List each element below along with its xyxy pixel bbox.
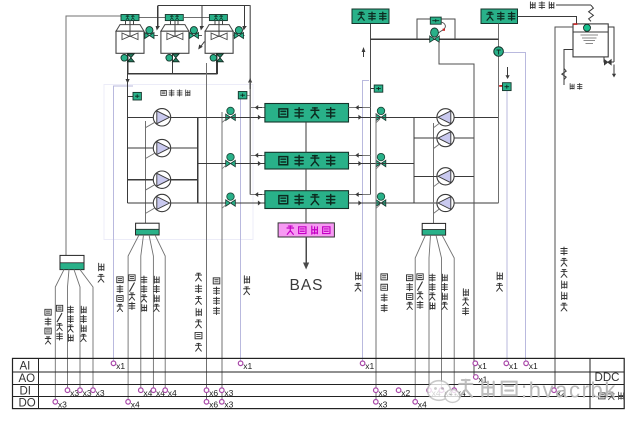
communication interface box 通讯接口 (278, 223, 334, 237)
wire temp sensor T1 to AI (114, 86, 134, 362)
wire chilled pump controls to junction box JB3 (432, 123, 434, 223)
label 起停控制 (406, 275, 412, 310)
pipe chiller3 row to return downpipe (349, 202, 499, 204)
pump P1-1 outlet stub (171, 116, 198, 118)
pipe chiller2 row stub (349, 163, 415, 165)
svg-text:x3: x3 (224, 388, 233, 398)
chilled pump right header (473, 117, 475, 203)
svg-text:x3: x3 (378, 388, 387, 398)
tower CT3 outlet drain valve (216, 53, 218, 73)
wire pump P1-2 control tap (145, 153, 155, 159)
chiller 2 condenser in pipe (198, 163, 265, 165)
DI points (65, 388, 70, 393)
cooling tower CT1 fan box (121, 15, 139, 21)
tower inlet butterfly valve BV3 (235, 27, 242, 34)
wire pump P2-2 control tap (433, 144, 440, 149)
wire JB1-3 (74, 270, 80, 391)
pump P1-3 (153, 171, 170, 188)
pump P1-2 (153, 139, 170, 156)
pump P2-3 stubs (414, 175, 437, 177)
cooling tower CT1 fan blades (129, 21, 131, 37)
label 手/自动 (417, 274, 423, 309)
label 故障报警 (81, 306, 87, 341)
tower inlet butterfly valve BV2 (190, 27, 197, 34)
float valve on tank (584, 24, 591, 31)
chiller communication bus (305, 122, 307, 152)
wire JB2-3 (149, 235, 153, 391)
svg-text:x6: x6 (209, 399, 218, 409)
flow arrow up beside supply riser (362, 47, 366, 52)
condenser pump inlet header (127, 117, 129, 203)
label 故障报警 (442, 274, 448, 309)
label 手/自动 (56, 305, 62, 340)
label 温度 (355, 272, 361, 291)
DO points (53, 400, 58, 405)
chiller 1 condenser out pipe (250, 107, 265, 109)
junction box JB3 (chilled pumps) (422, 223, 445, 235)
svg-text:x3: x3 (96, 388, 105, 398)
chilled water valve FV1 (377, 107, 384, 114)
label 起停控制 (117, 277, 123, 312)
label 启停控制 (45, 309, 51, 344)
svg-text:x6: x6 (209, 388, 218, 398)
chiller 1 evaporator out pipe (349, 107, 371, 109)
condenser inlet valve CV3 (227, 193, 234, 200)
wire pump controls to junction box JB2 (144, 121, 146, 223)
pump P1-3 inlet stub (128, 179, 154, 181)
watermark text (459, 380, 516, 397)
wire JB3-2 (429, 235, 431, 390)
wire pump P1-3 control tap (145, 185, 155, 191)
tower CT1 outlet drain valve (127, 53, 129, 73)
wire JB3-1 (415, 235, 425, 402)
label 运行状态 (141, 276, 147, 311)
wire level switch to DI 高低液位 (555, 27, 573, 391)
svg-text:x4: x4 (168, 388, 177, 398)
svg-text:DO: DO (19, 398, 36, 410)
label 冷却水阀 (213, 278, 220, 315)
wire temp sensor T4 to AI (506, 91, 508, 363)
pump P2-4 (437, 194, 454, 211)
cooling tower CT3 body (214, 21, 216, 25)
differential pressure sensing lines (417, 19, 430, 39)
pipe pump row1 to chiller1 (198, 116, 265, 118)
wire JB2-4 (155, 235, 165, 391)
make-up pipe to system 补水 (564, 50, 573, 86)
chiller 3 evaporator in pipe (355, 202, 360, 204)
label 运行状态 (68, 306, 74, 341)
wire temp sensor T2 to AI (240, 99, 242, 363)
svg-text:x1: x1 (243, 361, 252, 371)
wire JB1-2 (68, 270, 70, 391)
pump P1-1 inlet stub (128, 116, 154, 118)
wire JB3-3 (436, 235, 442, 390)
chiller unit 3 冷水机组 (265, 191, 349, 209)
wire JB1-1 (55, 270, 64, 402)
svg-text:x1: x1 (116, 361, 125, 371)
condenser pump discharge manifold (197, 117, 199, 203)
svg-text:BAS: BAS (289, 277, 323, 294)
svg-text:x1: x1 (529, 361, 538, 371)
tower collecting pipe (128, 73, 218, 75)
pipe chiller1 row to return downpipe (349, 116, 499, 118)
pump P2-2 (437, 130, 454, 147)
wire JB2-2 (141, 235, 144, 391)
chilled supply header riser to distributor (369, 24, 371, 195)
arrow to BAS (305, 237, 307, 263)
wire bypass valve to AO/AI (439, 41, 474, 377)
wire pump P2-1 control tap (433, 123, 440, 128)
watermark wechat logo (428, 381, 461, 403)
wire temp sensor T3 to AI (363, 81, 369, 363)
svg-text:x4: x4 (418, 399, 427, 409)
cooling tower CT2 body (170, 21, 172, 25)
wire pump P2-3 control tap (433, 182, 440, 187)
wire flow/temp sensor T5 to AI (503, 52, 525, 362)
pump P1-2 inlet stub (128, 147, 154, 149)
pump P1-4 inlet stub (128, 202, 154, 204)
pump P1-4 (153, 194, 170, 211)
chiller 1 evaporator in pipe (355, 116, 360, 118)
chiller 2 evaporator in pipe (355, 163, 360, 165)
flow arrow down beside return pipe (507, 67, 509, 76)
temp sensor T4 on return pipe (499, 85, 502, 87)
wire JB1-4 (80, 270, 93, 391)
condenser inlet valve CV1 (227, 107, 234, 114)
label 高低液位报警 (561, 247, 567, 311)
cooling tower CT3 fan box (209, 15, 227, 21)
pump P2-2 stubs (414, 137, 437, 139)
temp sensor T3 on chilled supply header (370, 88, 374, 90)
bypass valve control hook (436, 22, 446, 37)
label 蝶阀状态及控制 (195, 273, 202, 351)
svg-text:x1: x1 (509, 361, 518, 371)
tower CT2 outlet drain valve (172, 53, 174, 73)
DP controller box (430, 17, 441, 24)
group outline (condenser plant, faint) (104, 85, 253, 240)
bypass pipe between headers (370, 38, 498, 40)
wire JB2-1 (128, 235, 139, 402)
wire pump P1-1 control tap (145, 122, 155, 128)
junction box JB1 (tower fans) (60, 255, 84, 269)
label 故障报警 (154, 276, 160, 311)
svg-text:x1: x1 (478, 361, 487, 371)
chiller 1 condenser in pipe (254, 116, 258, 118)
make-up water tank (573, 24, 608, 57)
distributor 分水器 (352, 9, 389, 24)
wire JB3-4 (442, 235, 454, 390)
flow sensor on return pipe (494, 47, 504, 57)
wire pump P1-4 control tap (145, 208, 155, 214)
bypass valve 旁通阀 (431, 28, 439, 37)
svg-text:AI: AI (20, 361, 31, 373)
condenser supply top pipe to towers (158, 5, 251, 7)
tower 1 inlet drop pipe (157, 6, 159, 29)
svg-text:x3: x3 (224, 399, 233, 409)
temp sensor T2 on condenser return riser (247, 94, 250, 96)
AI points (111, 361, 116, 366)
cooling tower CT1 body (125, 21, 127, 25)
chiller 2 condenser out pipe (250, 154, 265, 156)
label 温度 (98, 263, 104, 282)
pump P2-3 (437, 168, 454, 185)
wire pump P2-4 control tap (433, 209, 440, 214)
AO point (474, 375, 479, 380)
tank overflow pipe (608, 27, 614, 62)
chiller 3 condenser in pipe (198, 202, 265, 204)
cooling tower CT2 fan blades (174, 21, 176, 37)
chiller unit 1 冷水机组 (265, 104, 349, 123)
tower inlet pipe segments (144, 35, 158, 37)
collector 集水器 (481, 9, 518, 24)
pipe collector to tank (518, 17, 577, 24)
flow arrow into tower 2 (200, 42, 205, 48)
svg-text:x4: x4 (131, 399, 140, 409)
wire condenser valves control to DI/DO (221, 112, 223, 402)
wire fan control from tower fan boxes to junction box JB1 (66, 16, 121, 255)
tower 3 inlet drop pipe (244, 6, 246, 29)
chiller 3 evaporator out pipe (349, 194, 371, 196)
chilled water valve FV2 (377, 153, 384, 160)
label 温度 (244, 276, 250, 295)
label 运行状态 (429, 274, 435, 309)
svg-text:AO: AO (19, 373, 36, 385)
wire butterfly-valve status/control to DI/DO (206, 63, 208, 402)
svg-text:x2: x2 (401, 388, 410, 398)
city water pipe with flex (556, 4, 591, 6)
condenser return riser to towers (249, 6, 251, 195)
chiller unit 2 冷水机组 (265, 152, 349, 169)
pump P1-4 outlet stub (171, 202, 198, 204)
pump P1-2 outlet stub (171, 147, 198, 149)
wire chilled-water valves to DI/DO (375, 113, 377, 402)
tower 2 inlet drop pipe (201, 6, 203, 29)
svg-text:DI: DI (20, 386, 32, 398)
svg-text:x3: x3 (378, 399, 387, 409)
svg-text::hvacrbk: :hvacrbk (521, 378, 617, 403)
chiller 3 condenser out pipe (250, 194, 265, 196)
cooling tower CT3 fan blades (218, 21, 220, 37)
temp sensor T1 on condenser supply (128, 95, 133, 97)
chiller 2 evaporator out pipe (349, 154, 371, 156)
label 温度 (496, 272, 502, 291)
svg-text:x3: x3 (58, 399, 67, 409)
chilled water valve FV3 (377, 193, 384, 200)
label 手/自动 (129, 275, 135, 310)
cooling tower CT2 fan box (165, 15, 183, 21)
pump P1-3 outlet stub (171, 179, 198, 181)
chilled pump left header (413, 117, 415, 203)
tower inlet butterfly valve BV1 (146, 27, 153, 34)
label 旁通阀 (463, 289, 469, 315)
IO point table (13, 358, 625, 408)
tank drain valve (604, 57, 614, 62)
collector return downpipe (498, 24, 500, 204)
city water label 给水管 (530, 2, 553, 9)
junction box JB2 (condenser pumps) (136, 223, 160, 235)
condenser water down pipe to pumps (127, 62, 129, 117)
condenser inlet valve CV2 (227, 153, 234, 160)
condenser water pump label (161, 90, 190, 96)
label 冷冻水阀 (381, 274, 388, 312)
pump P2-1 (437, 109, 454, 126)
svg-text:x1: x1 (365, 361, 374, 371)
pump P1-1 (153, 109, 170, 126)
